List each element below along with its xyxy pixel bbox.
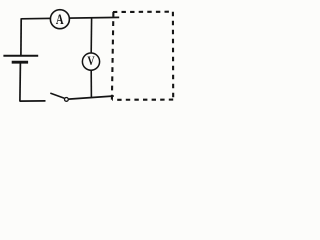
svg-text:A: A	[56, 11, 64, 27]
svg-text:V: V	[87, 55, 94, 68]
